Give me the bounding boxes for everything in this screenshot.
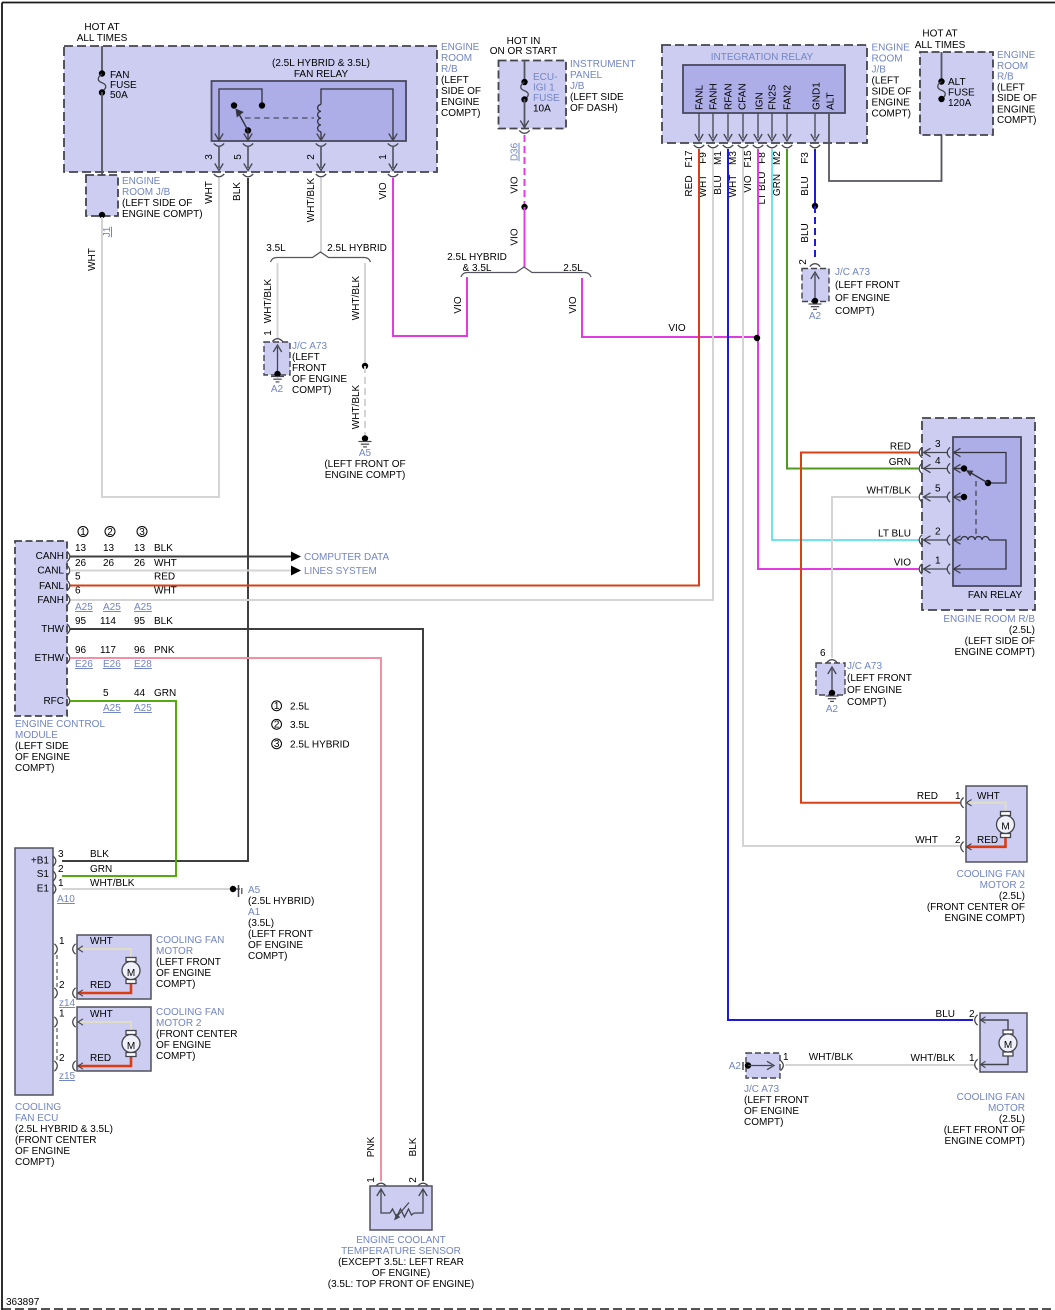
svg-text:M: M [1001, 822, 1009, 833]
wire frame top [2, 2, 1055, 4]
svg-text:J/C A73: J/C A73 [292, 341, 327, 352]
J/C A73 (left) [264, 342, 290, 375]
svg-text:IGN: IGN [755, 92, 766, 110]
svg-text:ENGINE: ENGINE [122, 176, 161, 187]
motor M1 COOLING FAN MOTOR (left) [77, 935, 151, 999]
node VIO junction [754, 335, 760, 341]
svg-text:(2.5L): (2.5L) [999, 1114, 1025, 1125]
svg-text:A1: A1 [248, 907, 261, 918]
svg-text:MOTOR 2: MOTOR 2 [156, 1018, 202, 1029]
svg-text:13: 13 [103, 543, 115, 554]
svg-text:2: 2 [107, 527, 113, 538]
engine room R/B box (ALT fuse) [920, 52, 993, 135]
svg-text:D36: D36 [510, 142, 521, 161]
svg-text:z15: z15 [59, 1071, 76, 1082]
svg-text:3: 3 [935, 439, 941, 450]
svg-text:(EXCEPT 3.5L: LEFT REAR: (EXCEPT 3.5L: LEFT REAR [338, 1257, 464, 1268]
svg-text:2.5L: 2.5L [290, 702, 310, 713]
svg-text:26: 26 [134, 558, 146, 569]
svg-text:FANH: FANH [709, 83, 720, 110]
svg-text:ENGINE COMPT): ENGINE COMPT) [122, 209, 203, 220]
wire GRN RFC to cooling fan ECU S1 [62, 701, 176, 876]
relay pin arrows through box bottom [215, 134, 223, 141]
svg-text:A25: A25 [134, 703, 152, 714]
ground A2 (middle J/C A73) [829, 690, 835, 696]
svg-text:3: 3 [204, 154, 215, 160]
svg-text:INSTRUMENT: INSTRUMENT [570, 59, 636, 70]
svg-text:RED: RED [977, 835, 998, 846]
svg-text:VIO: VIO [894, 558, 911, 569]
svg-text:2.5L HYBRID: 2.5L HYBRID [327, 243, 387, 254]
svg-text:120A: 120A [948, 98, 972, 109]
svg-text:GRN: GRN [772, 174, 783, 196]
svg-text:WHT: WHT [977, 791, 1000, 802]
wire fuse to J1 [101, 92, 103, 215]
svg-text:ECU-: ECU- [533, 72, 557, 83]
svg-text:6: 6 [820, 648, 826, 659]
svg-text:OF ENGINE: OF ENGINE [847, 685, 902, 696]
svg-text:THW: THW [41, 624, 64, 635]
svg-text:MOTOR: MOTOR [988, 1103, 1025, 1114]
svg-text:BLK: BLK [154, 543, 173, 554]
svg-text:2: 2 [408, 1177, 419, 1183]
svg-text:COMPT): COMPT) [15, 763, 54, 774]
ground A2 (left J/C A73) [274, 371, 280, 377]
svg-text:2.5L: 2.5L [563, 263, 583, 274]
svg-text:(LEFT FRONT: (LEFT FRONT [248, 929, 313, 940]
svg-text:1: 1 [955, 791, 961, 802]
wire BLK from ALT pin to ALT fuse [829, 99, 942, 181]
node branch bracket 2.5LHYB&3.5L / 2.5L [461, 267, 591, 277]
wire WHT/BLK dashed to ground A5 [364, 366, 366, 436]
svg-text:FAN RELAY: FAN RELAY [968, 590, 1023, 601]
svg-text:COMPT): COMPT) [997, 115, 1036, 126]
svg-text:+B1: +B1 [31, 856, 50, 867]
sensor RT1 ENGINE COOLANT TEMPERATURE SENSOR [370, 1186, 432, 1230]
svg-text:1: 1 [274, 701, 280, 712]
svg-text:ALT: ALT [948, 77, 966, 88]
svg-text:M: M [127, 968, 135, 979]
svg-text:SIDE OF: SIDE OF [872, 87, 912, 98]
wire feed into FAN fuse [101, 46, 103, 73]
motor symbol [1001, 812, 1011, 816]
svg-text:OF ENGINE: OF ENGINE [835, 293, 890, 304]
svg-text:13: 13 [134, 543, 146, 554]
svg-text:ENGINE COMPT): ENGINE COMPT) [944, 1136, 1025, 1147]
node column markers 1 2 3 [78, 527, 147, 537]
svg-text:WHT: WHT [154, 558, 177, 569]
ground dot [745, 1062, 751, 1068]
svg-text:RED: RED [154, 572, 175, 583]
wire BLK CANH to computer data lines [70, 556, 291, 558]
ground connector A5/A1 [230, 886, 236, 892]
svg-text:FANH: FANH [37, 595, 64, 606]
svg-text:(LEFT SIDE: (LEFT SIDE [15, 741, 69, 752]
relay U1 INTEGRATION RELAY outer box [662, 45, 867, 143]
svg-text:VIO: VIO [743, 175, 754, 192]
wire WHT F9/FANH to ECM FANH [70, 149, 713, 600]
svg-text:ROOM: ROOM [872, 54, 903, 65]
svg-text:3.5L: 3.5L [290, 720, 310, 731]
svg-text:WHT/BLK: WHT/BLK [867, 486, 912, 497]
wire RED inside [967, 838, 1006, 847]
svg-text:S1: S1 [37, 869, 50, 880]
svg-text:ENGINE COMPT): ENGINE COMPT) [325, 470, 406, 481]
svg-text:OF ENGINE: OF ENGINE [15, 1146, 70, 1157]
wire BLK THW to temp sensor pin2 [70, 629, 423, 1181]
relay fixed contact on pin 4 [954, 468, 964, 470]
wire RED F17/FANL to ECM FANL [70, 149, 699, 586]
wire WHT CANL to computer data lines [70, 570, 291, 572]
wire VIO dashed from D36 [524, 135, 526, 207]
svg-text:5: 5 [935, 484, 941, 495]
svg-text:2: 2 [59, 1053, 65, 1064]
svg-text:A2: A2 [826, 704, 839, 715]
motor symbol [1003, 1030, 1013, 1034]
svg-text:ENGINE COOLANT: ENGINE COOLANT [356, 1235, 445, 1246]
svg-text:(LEFT SIDE: (LEFT SIDE [570, 92, 624, 103]
svg-text:E1: E1 [37, 884, 50, 895]
svg-text:2: 2 [955, 835, 961, 846]
svg-text:HOT AT: HOT AT [922, 29, 957, 40]
svg-text:5: 5 [75, 572, 81, 583]
svg-text:WHT: WHT [915, 835, 938, 846]
wire VIO F15/IGN to fan relay pin1 [758, 149, 919, 569]
svg-text:1: 1 [783, 1052, 789, 1063]
svg-text:1: 1 [969, 1053, 975, 1064]
svg-text:A2: A2 [729, 1061, 742, 1072]
svg-text:R/B: R/B [441, 64, 458, 75]
svg-text:FAN ECU: FAN ECU [15, 1113, 58, 1124]
svg-text:COMPT): COMPT) [15, 1157, 54, 1168]
svg-text:(LEFT FRONT: (LEFT FRONT [744, 1095, 809, 1106]
svg-text:RED: RED [890, 442, 911, 453]
svg-text:FANL: FANL [39, 581, 64, 592]
svg-text:26: 26 [103, 558, 115, 569]
svg-text:2: 2 [274, 719, 280, 730]
svg-text:3.5L: 3.5L [266, 243, 286, 254]
svg-text:5: 5 [233, 154, 244, 160]
svg-text:VIO: VIO [568, 296, 579, 313]
svg-text:M1: M1 [713, 151, 724, 165]
svg-text:ETHW: ETHW [35, 653, 65, 664]
svg-text:A2: A2 [271, 384, 284, 395]
svg-text:OF ENGINE: OF ENGINE [292, 374, 347, 385]
wire BLK from relay pin 5 down to cooling fan ECU +B1 [62, 178, 248, 861]
relay coil [318, 105, 321, 132]
svg-text:(2.5L HYBRID & 3.5L): (2.5L HYBRID & 3.5L) [272, 58, 370, 69]
svg-text:VIO: VIO [510, 176, 521, 193]
svg-text:A25: A25 [75, 602, 93, 613]
svg-text:J/B: J/B [872, 65, 887, 76]
pin stubs to outer box edge [218, 147, 220, 168]
svg-text:F3: F3 [800, 152, 811, 164]
ground A2 (top right) [812, 298, 818, 304]
wire WHT/BLK 3.5L branch to J/C A73 [277, 263, 279, 338]
engine room J/B box (left) [86, 175, 118, 216]
svg-text:1: 1 [59, 1009, 65, 1020]
svg-text:VIO: VIO [378, 182, 389, 199]
svg-text:RFC: RFC [43, 696, 64, 707]
svg-text:J/C A73: J/C A73 [847, 661, 882, 672]
svg-text:ENGINE: ENGINE [441, 97, 480, 108]
svg-text:PNK: PNK [154, 645, 175, 656]
relay contact: pin3 branch [219, 89, 262, 139]
svg-text:MOTOR: MOTOR [156, 946, 193, 957]
svg-text:A25: A25 [103, 703, 121, 714]
svg-text:2: 2 [58, 864, 64, 875]
svg-text:A2: A2 [809, 311, 822, 322]
svg-text:CANH: CANH [36, 551, 64, 562]
svg-text:FAN2: FAN2 [783, 85, 794, 110]
svg-text:114: 114 [100, 616, 116, 627]
svg-text:J/C A73: J/C A73 [835, 267, 870, 278]
wires inside [981, 1020, 1009, 1030]
svg-text:A25: A25 [103, 602, 121, 613]
svg-text:1: 1 [935, 556, 941, 567]
wire VIO 2.5L branch to junction [582, 278, 756, 337]
svg-text:3: 3 [274, 739, 280, 750]
svg-text:1: 1 [378, 154, 389, 160]
svg-text:10A: 10A [533, 104, 551, 115]
svg-text:COOLING FAN: COOLING FAN [156, 1007, 224, 1018]
svg-text:BLU: BLU [713, 175, 724, 194]
svg-text:WHT/BLK: WHT/BLK [351, 384, 362, 429]
svg-text:A10: A10 [57, 894, 75, 905]
svg-text:WHT: WHT [87, 248, 98, 271]
relay K1 FAN RELAY outer box [922, 418, 1035, 610]
svg-text:(LEFT: (LEFT [997, 83, 1025, 94]
svg-text:FRONT: FRONT [292, 363, 326, 374]
svg-text:SIDE OF: SIDE OF [441, 86, 481, 97]
svg-text:95: 95 [134, 616, 146, 627]
svg-text:FUSE: FUSE [533, 93, 560, 104]
svg-text:3: 3 [58, 849, 64, 860]
svg-text:GRN: GRN [154, 688, 176, 699]
motor M4 COOLING FAN MOTOR 2 box [966, 786, 1027, 862]
wire VIO solid to branch [524, 207, 526, 267]
wire WHT from J1 down, around to relay pin 3 [102, 178, 219, 497]
svg-text:(LEFT FRONT: (LEFT FRONT [847, 673, 912, 684]
svg-text:5: 5 [103, 688, 109, 699]
relay switch blade [245, 127, 251, 133]
svg-text:2: 2 [798, 259, 809, 265]
svg-text:COOLING FAN: COOLING FAN [156, 935, 224, 946]
svg-text:VIO: VIO [510, 228, 521, 245]
svg-text:A5: A5 [359, 448, 372, 459]
svg-text:RED: RED [684, 175, 695, 196]
svg-text:ALL TIMES: ALL TIMES [915, 40, 966, 51]
svg-text:J1: J1 [102, 226, 113, 237]
svg-text:OF ENGINE: OF ENGINE [156, 1040, 211, 1051]
svg-text:(2.5L): (2.5L) [999, 891, 1025, 902]
svg-text:OF ENGINE: OF ENGINE [248, 940, 303, 951]
svg-text:HOT AT: HOT AT [84, 22, 119, 33]
svg-text:ENGINE: ENGINE [997, 105, 1036, 116]
svg-text:COOLING: COOLING [15, 1102, 61, 1113]
svg-text:ROOM J/B: ROOM J/B [122, 187, 171, 198]
node legend [272, 701, 282, 749]
svg-text:CANL: CANL [37, 566, 64, 577]
motor M2 COOLING FAN MOTOR 2 (left) [77, 1007, 151, 1071]
svg-text:(2.5L): (2.5L) [1009, 625, 1035, 636]
svg-text:RFAN: RFAN [724, 83, 735, 110]
svg-text:MODULE: MODULE [15, 730, 58, 741]
svg-text:(LEFT: (LEFT [872, 76, 900, 87]
relay dashed link [975, 481, 977, 538]
svg-text:44: 44 [134, 688, 146, 699]
svg-text:R/B: R/B [997, 72, 1014, 83]
wire RED fan relay pin3 to cooling fan motor2 pin1 [801, 453, 960, 803]
svg-text:RED: RED [917, 791, 938, 802]
svg-text:ENGINE: ENGINE [872, 43, 911, 54]
svg-text:CFAN: CFAN [738, 83, 749, 110]
pin exit arrows [699, 113, 815, 138]
svg-text:WHT/BLK: WHT/BLK [911, 1053, 956, 1064]
svg-text:13: 13 [75, 543, 87, 554]
svg-text:(LEFT FRONT OF: (LEFT FRONT OF [944, 1125, 1025, 1136]
svg-text:(LEFT: (LEFT [441, 75, 469, 86]
svg-text:COMPT): COMPT) [292, 385, 331, 396]
svg-text:M3: M3 [728, 151, 739, 165]
svg-text:ALT: ALT [826, 92, 837, 110]
svg-text:BLK: BLK [232, 182, 243, 201]
node J1 [99, 212, 105, 218]
svg-text:& 3.5L: & 3.5L [463, 263, 492, 274]
svg-text:(3.5L): (3.5L) [248, 918, 274, 929]
wire WHT/BLK E1 to A5/A1 point [62, 888, 234, 890]
svg-text:WHT: WHT [728, 175, 739, 198]
svg-text:ENGINE: ENGINE [441, 42, 480, 53]
motor symbol [126, 1031, 136, 1035]
svg-text:BLU: BLU [800, 176, 811, 195]
svg-text:2: 2 [969, 1009, 975, 1020]
svg-text:OF ENGINE: OF ENGINE [744, 1106, 799, 1117]
resistor (thermistor) [390, 1209, 414, 1217]
svg-text:MOTOR 2: MOTOR 2 [980, 880, 1026, 891]
svg-text:ENGINE COMPT): ENGINE COMPT) [944, 913, 1025, 924]
svg-text:COMPT): COMPT) [847, 697, 886, 708]
svg-text:WHT/BLK: WHT/BLK [263, 278, 274, 323]
ground A5 [362, 435, 368, 441]
svg-text:2.5L HYBRID: 2.5L HYBRID [447, 252, 507, 263]
svg-text:COMPT): COMPT) [248, 951, 287, 962]
node splice [521, 204, 527, 210]
svg-text:F17: F17 [684, 150, 695, 168]
wire WHT/BLK to cooling fan motor pin1 [785, 1064, 974, 1066]
wire BLU dashed to J/C A73 pin 2 [814, 206, 816, 258]
svg-text:SIDE OF: SIDE OF [997, 93, 1037, 104]
svg-text:1: 1 [366, 1177, 377, 1183]
svg-text:(LEFT FRONT OF: (LEFT FRONT OF [324, 459, 405, 470]
wire BLU F3/GND1 solid [814, 149, 816, 206]
fuse FAN 50A [99, 70, 105, 76]
svg-text:(LEFT SIDE OF: (LEFT SIDE OF [965, 636, 1035, 647]
svg-text:RED: RED [90, 1053, 111, 1064]
svg-text:LINES SYSTEM: LINES SYSTEM [304, 566, 377, 577]
svg-text:ON OR START: ON OR START [490, 46, 557, 57]
svg-text:ENGINE ROOM R/B: ENGINE ROOM R/B [943, 614, 1035, 625]
wire WHT inside [78, 1022, 131, 1030]
svg-text:2: 2 [935, 527, 941, 538]
svg-text:M: M [1004, 1040, 1012, 1051]
svg-text:PANEL: PANEL [570, 70, 602, 81]
svg-text:WHT: WHT [90, 936, 113, 947]
svg-text:OF ENGINE: OF ENGINE [156, 968, 211, 979]
svg-text:J/C A73: J/C A73 [744, 1084, 779, 1095]
svg-text:PNK: PNK [366, 1136, 377, 1157]
fuse ALT 120A [938, 78, 944, 84]
svg-text:117: 117 [100, 645, 116, 656]
wire GRN M2/FAN2 to fan relay pin4 [787, 149, 919, 469]
wire WHT M3/CFAN to cooling fan motor2 pin2 [743, 149, 960, 846]
svg-text:2: 2 [59, 980, 65, 991]
svg-text:FAN RELAY: FAN RELAY [294, 69, 349, 80]
relay switch blade [971, 473, 988, 483]
svg-text:GND1: GND1 [812, 82, 823, 110]
svg-text:95: 95 [75, 616, 87, 627]
ECM box [15, 541, 67, 716]
svg-text:BLU: BLU [936, 1009, 955, 1020]
svg-text:ROOM: ROOM [997, 61, 1028, 72]
svg-text:GRN: GRN [90, 864, 112, 875]
svg-text:WHT/BLK: WHT/BLK [90, 878, 135, 889]
wire WHT inside [967, 803, 1006, 811]
svg-text:BLK: BLK [408, 1137, 419, 1156]
svg-text:2.5L HYBRID: 2.5L HYBRID [290, 740, 350, 751]
relay dashed link [245, 117, 314, 119]
svg-text:FANL: FANL [695, 85, 706, 110]
svg-text:1: 1 [80, 527, 86, 538]
svg-text:COMPT): COMPT) [744, 1117, 783, 1128]
svg-text:COMPUTER DATA: COMPUTER DATA [304, 552, 390, 563]
svg-text:A5: A5 [248, 885, 261, 896]
svg-text:OF ENGINE): OF ENGINE) [372, 1268, 430, 1279]
svg-text:(FRONT CENTER: (FRONT CENTER [15, 1135, 96, 1146]
node splice [362, 363, 368, 369]
svg-text:M: M [127, 1041, 135, 1052]
svg-text:ENGINE: ENGINE [997, 50, 1036, 61]
svg-text:E26: E26 [103, 659, 121, 670]
svg-text:WHT: WHT [204, 181, 215, 204]
svg-text:ROOM: ROOM [441, 53, 472, 64]
svg-text:GRN: GRN [889, 457, 911, 468]
svg-text:FN2S: FN2S [768, 84, 779, 110]
svg-text:COMPT): COMPT) [835, 306, 874, 317]
relay pin5 contact [954, 496, 964, 498]
svg-text:WHT: WHT [154, 586, 177, 597]
svg-text:(LEFT SIDE OF: (LEFT SIDE OF [122, 198, 192, 209]
fan relay box (inner, left) [212, 81, 407, 141]
relay contact path from pin 3 [954, 453, 1006, 484]
svg-text:M2: M2 [772, 151, 783, 165]
wire WHT inside [78, 949, 131, 957]
svg-text:COMPT): COMPT) [441, 108, 480, 119]
wire BLU M1/RFAN to cooling fan motor pin2 [728, 149, 973, 1020]
svg-text:WHT/BLK: WHT/BLK [809, 1052, 854, 1063]
svg-text:50A: 50A [110, 90, 128, 101]
svg-text:F15: F15 [743, 150, 754, 168]
svg-text:WHT/BLK: WHT/BLK [306, 177, 317, 222]
wire RED inside [78, 984, 131, 993]
svg-text:ENGINE COMPT): ENGINE COMPT) [954, 647, 1035, 658]
wire WHT/BLK 2.5L HYBRID branch [364, 263, 366, 366]
svg-text:FUSE: FUSE [948, 88, 975, 99]
svg-text:96: 96 [134, 645, 146, 656]
svg-text:(LEFT: (LEFT [292, 352, 320, 363]
svg-text:J/B: J/B [570, 81, 585, 92]
svg-text:COMPT): COMPT) [156, 1051, 195, 1062]
